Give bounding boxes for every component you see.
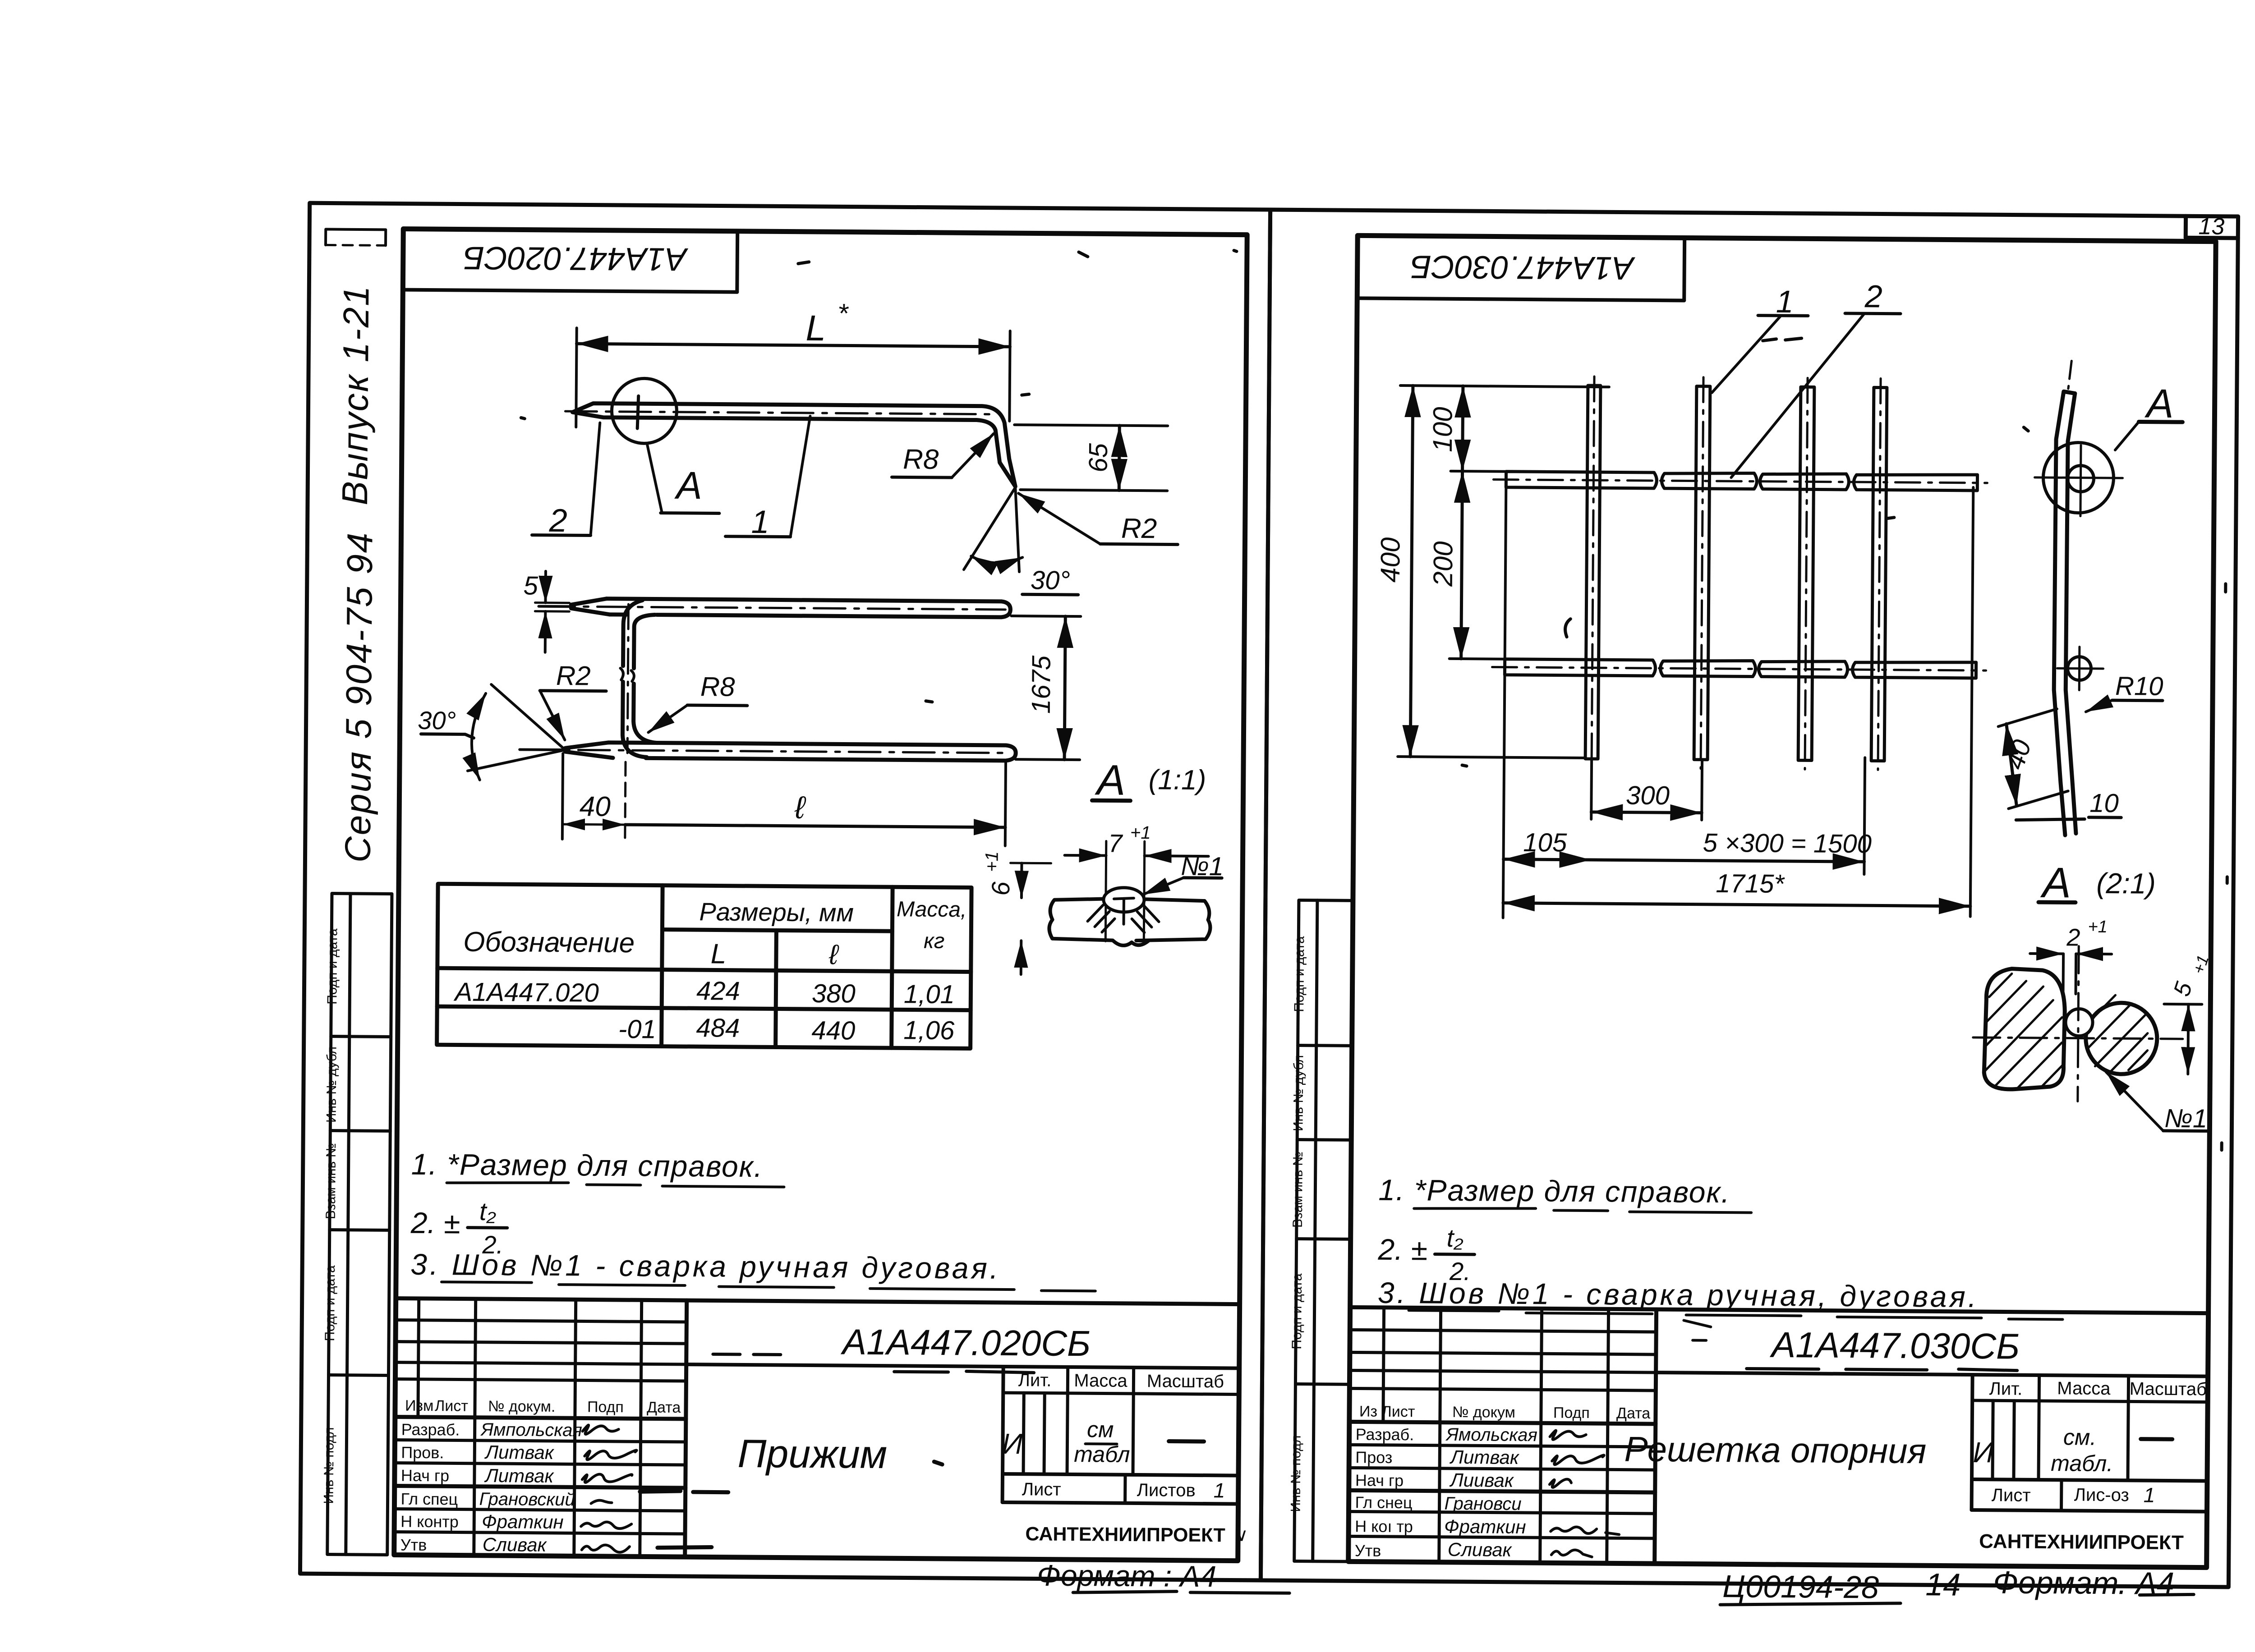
svg-text:Гл спец: Гл спец <box>400 1490 458 1509</box>
hairpin U-bend <box>622 600 648 757</box>
side bar <box>2053 391 2079 835</box>
svg-text:-01: -01 <box>618 1014 656 1044</box>
svg-text:А: А <box>1095 756 1126 804</box>
svg-text:Лит.: Лит. <box>1989 1379 2022 1399</box>
svg-text:Взам инв №: Взам инв № <box>1290 1152 1306 1228</box>
dimension 300 <box>1590 761 1593 819</box>
svg-text:Лис-оз: Лис-оз <box>2074 1485 2129 1505</box>
signatures squiggles sheet2 <box>1549 1431 1620 1557</box>
svg-text:+1: +1 <box>982 851 1002 872</box>
signatures squiggles sheet1 <box>581 1425 637 1552</box>
dimension L* <box>576 328 577 427</box>
center tick in circle <box>637 396 639 428</box>
dimension l view2 <box>625 825 1005 827</box>
scattered scan specks <box>516 245 2232 1150</box>
svg-text:R2: R2 <box>556 661 591 691</box>
svg-text:Масштаб: Масштаб <box>2130 1379 2207 1399</box>
svg-text:Н коı тр: Н коı тр <box>1355 1517 1413 1536</box>
svg-text:3. Шов №1 - сварка ручная,: 3. Шов №1 - сварка ручная, дуговая. <box>1378 1276 1979 1313</box>
svg-text:1: 1 <box>2144 1483 2155 1507</box>
svg-text:кг: кг <box>924 929 945 953</box>
svg-text:ℓ: ℓ <box>828 939 839 970</box>
svg-text:А1А447.020: А1А447.020 <box>453 977 599 1007</box>
leader label 1 sheet2 <box>1776 284 1793 319</box>
label N1 sheet2 <box>2164 1104 2208 1133</box>
svg-text:Грановси: Грановси <box>1444 1494 1521 1514</box>
grate vertical bar 4 <box>1871 387 1887 761</box>
svg-text:*: * <box>838 298 849 328</box>
svg-text:ℓ: ℓ <box>794 790 807 825</box>
svg-text:1: 1 <box>1214 1478 1225 1502</box>
svg-text:R8: R8 <box>700 671 736 702</box>
svg-text:Литвак: Литвак <box>484 1465 555 1487</box>
rod cross section in circle <box>2067 465 2094 491</box>
sheet1 margin boxes strip <box>327 894 392 1555</box>
svg-text:100: 100 <box>1427 407 1458 452</box>
svg-text:Подп и дата: Подп и дата <box>322 1265 338 1341</box>
svg-text:2: 2 <box>548 503 567 539</box>
dimension 200 <box>1450 657 1505 661</box>
label 2 <box>548 503 567 539</box>
svg-text:Инв № дубл: Инв № дубл <box>1291 1055 1306 1131</box>
left columns verticals <box>418 1299 419 1417</box>
sheet1 vertical series text <box>332 285 382 863</box>
dimension 400 <box>1400 385 1609 387</box>
svg-text:Масса,: Масса, <box>897 897 967 922</box>
svg-text:1. *Размер для справок.: 1. *Размер для справок. <box>1378 1173 1730 1209</box>
svg-text:Формат : А4: Формат : А4 <box>1037 1559 1216 1593</box>
svg-text:САНТЕХНИИПРОЕКТ: САНТЕХНИИПРОЕКТ <box>1025 1523 1225 1546</box>
svg-text:2. ±: 2. ± <box>1377 1233 1427 1267</box>
svg-text:5 ×300 = 1500: 5 ×300 = 1500 <box>1703 828 1872 859</box>
svg-text:Фраткин: Фраткин <box>1444 1516 1526 1537</box>
sheet2 title block <box>1348 1307 2209 1567</box>
svg-text:2: 2 <box>1864 279 1882 314</box>
label R2 view1 <box>1121 513 1157 545</box>
svg-text:И: И <box>1973 1436 1994 1468</box>
dimension 40 slanted <box>1998 708 2057 727</box>
grate horizontal bar row 1 (4 segments) <box>1506 472 1977 491</box>
svg-text:Гл снец: Гл снец <box>1355 1493 1412 1512</box>
svg-text:Лист: Лист <box>1022 1479 1061 1500</box>
svg-text:№ докум.: № докум. <box>488 1398 556 1415</box>
svg-text:1675: 1675 <box>1026 655 1056 714</box>
svg-text:200: 200 <box>1428 541 1459 587</box>
svg-text:А: А <box>674 464 702 507</box>
svg-text:Инв № подл: Инв № подл <box>1288 1435 1303 1512</box>
grate vertical bar centerlines <box>1592 376 1881 770</box>
sheet1 stamp box (rotated designation) <box>403 229 737 292</box>
grate vertical bar 3 <box>1798 387 1814 760</box>
svg-text:Серия 5 904-75 94: Серия 5 904-75 94 <box>337 532 380 863</box>
svg-text:Дата: Дата <box>647 1399 681 1416</box>
svg-text:484: 484 <box>696 1013 740 1043</box>
svg-text:1: 1 <box>751 504 769 540</box>
svg-text:10: 10 <box>2089 789 2119 818</box>
label R8 view1 <box>903 444 939 475</box>
dimension 1675 view2 <box>1011 616 1081 616</box>
svg-text:см.: см. <box>2063 1424 2097 1450</box>
svg-text:Сливак: Сливак <box>1448 1539 1513 1560</box>
svg-text:3. Шов №1 - сварка ручная д: 3. Шов №1 - сварка ручная дуговая. <box>410 1248 1001 1285</box>
svg-text:t₂: t₂ <box>1446 1224 1463 1252</box>
svg-text:Дата: Дата <box>1616 1404 1651 1422</box>
svg-text:Подп и дата: Подп и дата <box>1289 1273 1305 1349</box>
sheet2 page number box 13 <box>2186 216 2238 238</box>
svg-text:Листов: Листов <box>1137 1480 1196 1501</box>
svg-text:R2: R2 <box>1121 513 1157 545</box>
svg-text:Размеры, мм: Размеры, мм <box>699 897 854 927</box>
7+1 dimension <box>1065 854 1106 857</box>
svg-text:Н контр: Н контр <box>400 1512 459 1531</box>
designation cell divider <box>685 1300 687 1557</box>
svg-text:Лит.: Лит. <box>1018 1370 1052 1390</box>
grate horizontal bar centerlines <box>1492 480 1988 671</box>
grate vertical bar 2 <box>1694 386 1710 760</box>
svg-text:Ямпольская: Ямпольская <box>480 1420 582 1441</box>
svg-text:Изм: Изм <box>405 1397 434 1414</box>
dimension 105 and 5x300=1500 <box>1503 484 1506 918</box>
svg-text:Масса: Масса <box>1074 1371 1127 1391</box>
svg-text:(2:1): (2:1) <box>2096 867 2156 900</box>
svg-text:А1А447.030СБ: А1А447.030СБ <box>1770 1325 2020 1367</box>
svg-text:Подп и дата: Подп и дата <box>1292 936 1307 1012</box>
svg-text:Выпуск 1-21: Выпуск 1-21 <box>335 285 376 505</box>
svg-text:И: И <box>1002 1427 1023 1460</box>
svg-text:Инв № подл: Инв № подл <box>322 1427 337 1504</box>
svg-text:13: 13 <box>2198 213 2224 239</box>
sheet2 footer: Ц00194-28 14 Формат. А4 <box>1722 1563 2174 1607</box>
svg-text:1715*: 1715* <box>1716 869 1785 899</box>
svg-text:Нач гр: Нач гр <box>1355 1471 1404 1490</box>
svg-text:+1: +1 <box>2088 918 2108 936</box>
right section <box>1003 1367 1003 1502</box>
svg-text:t₂: t₂ <box>479 1197 496 1225</box>
svg-text:Лист: Лист <box>1992 1485 2031 1505</box>
svg-text:14: 14 <box>1925 1567 1960 1602</box>
svg-text:Масса: Масса <box>2057 1378 2111 1399</box>
leader label 2 sheet2 <box>1864 279 1882 314</box>
svg-text:Проз: Проз <box>1355 1448 1392 1467</box>
svg-text:Утв: Утв <box>1355 1541 1381 1560</box>
svg-text:Подп: Подп <box>587 1399 624 1416</box>
rod centerline view1 <box>565 411 998 414</box>
rod section circle (hatched) <box>2085 1003 2157 1074</box>
svg-text:40: 40 <box>580 791 611 822</box>
svg-text:Грановский: Грановский <box>479 1489 575 1510</box>
sheet1 inner frame <box>394 229 1247 1561</box>
svg-text:6: 6 <box>986 881 1015 895</box>
svg-text:Лист: Лист <box>435 1397 468 1415</box>
6+1 dimension <box>982 851 1015 896</box>
svg-text:300: 300 <box>1626 781 1670 811</box>
svg-text:А: А <box>2040 859 2071 907</box>
svg-text:Подп: Подп <box>1553 1404 1590 1422</box>
svg-text:см: см <box>1087 1417 1114 1442</box>
weld nugget <box>2066 1009 2093 1036</box>
svg-text:№ докум: № докум <box>1452 1404 1515 1421</box>
svg-text:№1: №1 <box>2164 1104 2208 1133</box>
svg-text:5: 5 <box>523 571 538 600</box>
svg-text:2. ±: 2. ± <box>410 1206 460 1240</box>
label R8 view2 <box>700 671 736 702</box>
sheet1 Формат: А4 <box>1037 1559 1216 1593</box>
sheet2 margin boxes strip <box>1294 900 1353 1562</box>
dimension 100 <box>1451 470 1506 473</box>
hairpin centerlines <box>543 606 1005 610</box>
dimension 40 view2 <box>562 753 563 839</box>
svg-text:Пров.: Пров. <box>401 1443 444 1462</box>
svg-text:Сливак: Сливак <box>483 1534 548 1556</box>
dimension 1715* <box>1970 487 1974 917</box>
svg-text:380: 380 <box>812 979 856 1009</box>
weld bead <box>1104 887 1144 912</box>
30 degree angle view1 <box>964 487 1015 570</box>
label N1 sheet1 <box>1181 852 1224 881</box>
svg-text:Фраткин: Фраткин <box>482 1511 564 1533</box>
sheet1 title block <box>394 1299 1240 1561</box>
label R10 <box>2115 671 2163 701</box>
narrow top rows <box>396 1320 686 1322</box>
svg-text:Утв: Утв <box>400 1536 427 1554</box>
svg-text:30°: 30° <box>1031 565 1070 595</box>
label 1 <box>751 504 769 540</box>
weld hatching <box>1087 905 1159 932</box>
dimension 5 (tip) <box>535 601 569 604</box>
svg-text:А1А447.020СБ: А1А447.020СБ <box>841 1322 1091 1363</box>
svg-text:+1: +1 <box>1130 823 1151 843</box>
svg-text:440: 440 <box>811 1016 855 1046</box>
svg-text:Из Лист: Из Лист <box>1359 1403 1415 1420</box>
hairpin top run <box>606 599 1010 617</box>
svg-text:Ц00194-28: Ц00194-28 <box>1722 1569 1879 1605</box>
grate horizontal bar row 2 (4 segments) <box>1505 659 1976 678</box>
svg-text:Лиивак: Лиивак <box>1449 1469 1514 1491</box>
svg-text:Литвак: Литвак <box>1449 1446 1520 1468</box>
signature rows <box>395 1440 686 1442</box>
svg-text:Масштаб: Масштаб <box>1147 1371 1224 1391</box>
svg-text:30°: 30° <box>418 706 456 735</box>
label A sheet2 <box>2144 381 2174 427</box>
svg-text:65: 65 <box>1084 443 1113 473</box>
svg-text:L: L <box>805 308 826 348</box>
svg-text:табл: табл <box>1074 1441 1130 1467</box>
svg-text:1,06: 1,06 <box>903 1015 955 1045</box>
dimension 65 <box>1014 425 1168 426</box>
sheet2 outer border <box>1261 210 2238 1587</box>
svg-text:Ямольская: Ямольская <box>1445 1425 1537 1445</box>
svg-text:1: 1 <box>1776 284 1793 319</box>
lower rod cross section <box>2067 656 2091 680</box>
svg-text:(1:1): (1:1) <box>1149 764 1206 796</box>
svg-text:7: 7 <box>1108 829 1123 858</box>
svg-text:1,01: 1,01 <box>904 979 955 1009</box>
svg-text:424: 424 <box>696 976 740 1006</box>
svg-text:Разраб.: Разраб. <box>401 1420 460 1439</box>
svg-text:САНТЕХНИИПРОЕКТ: САНТЕХНИИПРОЕКТ <box>1979 1530 2184 1554</box>
label R2 view2 <box>556 661 591 691</box>
svg-text:∨: ∨ <box>1235 1525 1248 1545</box>
detail centerlines <box>1973 1037 2183 1039</box>
svg-text:Разраб.: Разраб. <box>1356 1425 1414 1444</box>
svg-text:Обозначение: Обозначение <box>463 927 635 959</box>
2+1 dimension <box>2066 917 2108 951</box>
plate section blob (hatched) <box>1984 968 2065 1090</box>
svg-text:L: L <box>711 938 727 969</box>
svg-text:Подп и дата: Подп и дата <box>325 928 340 1005</box>
label 10 <box>2089 789 2119 818</box>
svg-text:R8: R8 <box>903 444 939 475</box>
sheet1 top-left margin box <box>326 229 386 245</box>
svg-text:Решетка опорния: Решетка опорния <box>1624 1429 1926 1471</box>
30 degree angle view2 <box>491 684 566 750</box>
detail circle A sheet2 <box>2043 442 2114 513</box>
svg-text:R10: R10 <box>2115 671 2163 701</box>
svg-text:1. *Размер для справок.: 1. *Размер для справок. <box>411 1147 764 1183</box>
svg-text:А: А <box>2144 381 2174 427</box>
svg-text:Литвак: Литвак <box>484 1441 555 1463</box>
svg-text:Прижим: Прижим <box>737 1431 887 1477</box>
rod body view1 <box>572 403 1016 486</box>
svg-text:А1А447.030СБ: А1А447.030СБ <box>1410 248 1636 286</box>
svg-text:Взам инв №: Взам инв № <box>323 1143 339 1219</box>
svg-text:105: 105 <box>1523 828 1567 858</box>
svg-text:А1А447.020СБ: А1А447.020СБ <box>463 240 689 277</box>
weld plates cross-section <box>1049 899 1210 946</box>
grate vertical bar 1 <box>1585 385 1887 761</box>
hairpin bottom run <box>608 743 1016 761</box>
detail circle A view1 <box>612 378 677 444</box>
svg-text:Инв № дубл: Инв № дубл <box>324 1046 339 1123</box>
svg-text:табл.: табл. <box>2051 1450 2113 1476</box>
sheet2 stamp box (rotated designation) <box>1357 235 1684 300</box>
svg-text:Нач гр: Нач гр <box>401 1466 449 1485</box>
svg-text:400: 400 <box>1375 537 1406 583</box>
title block outer top <box>396 1299 1240 1304</box>
5+1 dimension <box>2168 953 2212 1000</box>
label A view1 <box>674 464 702 507</box>
sheet2 inner frame <box>1348 235 2216 1567</box>
sheet1 outer border <box>300 203 1270 1580</box>
